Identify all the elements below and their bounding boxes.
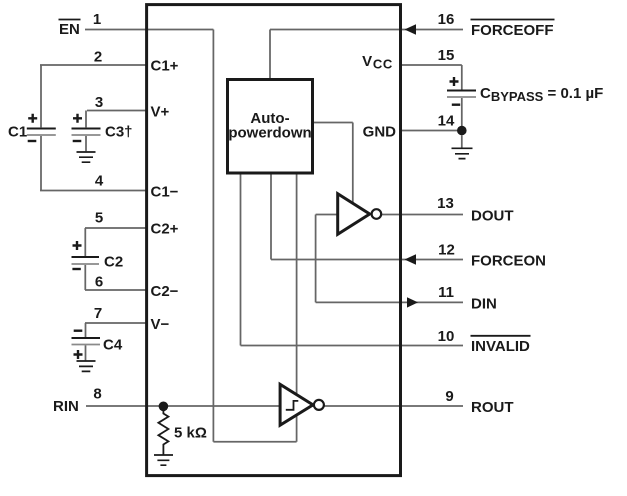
svg-text:16: 16 [438,11,455,28]
svg-text:9: 9 [445,388,453,405]
svg-text:C2: C2 [104,254,123,271]
svg-text:V+: V+ [151,104,170,121]
svg-text:C3†: C3† [105,124,133,141]
svg-text:C1: C1 [8,124,27,141]
svg-text:12: 12 [438,242,455,259]
svg-text:GND: GND [363,124,397,141]
svg-text:V−: V− [151,316,170,333]
svg-text:13: 13 [437,195,454,212]
svg-text:C2−: C2− [151,283,179,300]
svg-text:EN: EN [59,21,80,38]
svg-text:powerdown: powerdown [228,125,311,142]
svg-text:C1−: C1− [151,184,179,201]
svg-text:11: 11 [438,284,454,301]
svg-text:RIN: RIN [53,398,79,415]
svg-text:1: 1 [93,11,101,28]
svg-text:FORCEON: FORCEON [471,253,546,270]
svg-text:4: 4 [95,173,104,190]
svg-text:8: 8 [93,386,101,403]
svg-text:6: 6 [95,274,103,291]
svg-text:5: 5 [95,210,103,227]
svg-text:10: 10 [438,328,455,345]
svg-text:2: 2 [94,49,102,66]
svg-text:VCC: VCC [362,53,393,72]
svg-text:INVALID: INVALID [471,338,530,355]
svg-text:C4: C4 [103,337,123,354]
svg-text:DIN: DIN [471,295,497,312]
svg-text:DOUT: DOUT [471,208,514,225]
svg-text:15: 15 [438,47,455,64]
svg-text:ROUT: ROUT [471,399,514,416]
svg-text:C1+: C1+ [151,58,179,75]
svg-text:5 kΩ: 5 kΩ [174,425,207,442]
svg-text:7: 7 [94,305,102,322]
svg-text:14: 14 [438,113,455,130]
svg-text:FORCEOFF: FORCEOFF [471,22,554,39]
svg-text:C2+: C2+ [151,221,179,238]
svg-text:3: 3 [95,94,103,111]
